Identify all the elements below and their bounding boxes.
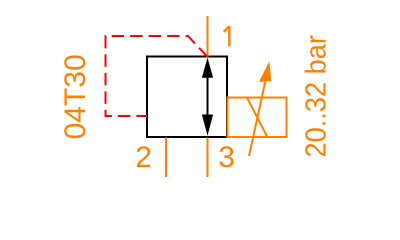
svg-text:3: 3 xyxy=(218,141,235,174)
svg-text:2: 2 xyxy=(135,141,152,174)
port 3 line xyxy=(207,138,209,178)
adjustment arrow shaft xyxy=(249,82,265,156)
svg-text:20..32 bar: 20..32 bar xyxy=(300,35,332,158)
port label 1 xyxy=(224,26,230,46)
svg-text:04T30: 04T30 xyxy=(59,54,92,139)
valve body square xyxy=(147,57,227,138)
valve flow arrowhead up xyxy=(202,58,213,78)
spring box cross diagonal xyxy=(247,98,267,137)
port 2 line xyxy=(165,138,167,178)
port 1 line xyxy=(207,16,209,57)
spring box xyxy=(228,98,287,138)
pilot line (red dashed) xyxy=(106,36,208,116)
valve flow arrow shaft xyxy=(207,75,209,117)
valve flow arrowhead down xyxy=(202,115,213,136)
adjustment arrowhead xyxy=(259,61,271,82)
